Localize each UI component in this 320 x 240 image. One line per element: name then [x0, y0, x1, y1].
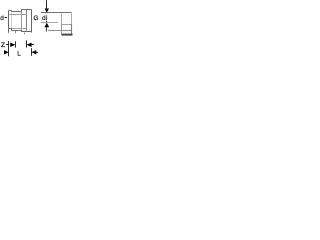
fitting: step up to body top — [22, 10, 32, 12]
extension: Z-left main — [15, 41, 17, 47]
extension: Z-left stub — [15, 31, 17, 34]
fitting: junction vertical at step — [21, 12, 23, 31]
svg-text:d: d — [0, 15, 4, 22]
right section: lower bore line — [48, 30, 72, 32]
right section: right face lower — [71, 24, 73, 35]
extension: L-right main — [31, 48, 33, 56]
fitting: bead right edge faint continuation — [11, 12, 13, 29]
right section: internal face vertical + ledge — [62, 13, 72, 25]
fitting: mouth bottom edge + step down — [9, 29, 12, 31]
fitting: inner bore faint bottom — [12, 28, 27, 30]
di dimension: mid segment + up arrow + tail — [44, 21, 49, 32]
extension: L-left stub below bead — [8, 32, 10, 34]
right section: thick bottom wall — [62, 34, 73, 36]
fitting: body bottom staircase — [22, 31, 32, 33]
extension: L-left main — [8, 41, 10, 56]
right section: top line A — [41, 12, 72, 14]
svg-text:L: L — [17, 50, 21, 57]
svg-text:Z: Z — [1, 42, 5, 49]
Z dimension: dash + outside arrows + stub — [6, 43, 34, 47]
extension: stub below body — [24, 33, 26, 35]
svg-text:G: G — [34, 15, 39, 22]
right section: internal face lower part — [61, 25, 63, 35]
L dimension: outside arrows + stub — [4, 50, 38, 54]
extension: Z-right main — [26, 40, 28, 47]
svg-text:i: i — [46, 15, 47, 22]
right section: line B — [41, 22, 58, 24]
fitting: socket bottom — [12, 30, 22, 32]
fitting: inner bore faint top — [9, 14, 27, 16]
fitting: body right edge — [31, 10, 33, 33]
d label leader dash — [4, 17, 7, 19]
right section: right face upper — [71, 13, 73, 25]
fitting: body internal vertical — [26, 10, 28, 31]
fitting: bead left edge + lower stub — [8, 11, 10, 33]
fitting: socket top — [12, 11, 22, 13]
fitting: bead top and step down — [9, 11, 12, 12]
di dimension: upper line + down arrow — [45, 0, 49, 13]
